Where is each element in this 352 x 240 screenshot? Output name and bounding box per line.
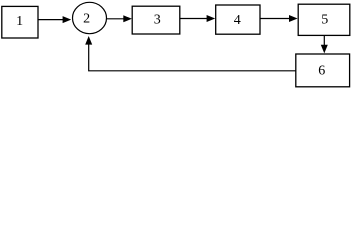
arrowhead into summing junction — [63, 16, 72, 23]
wire block1 to summing junction — [39, 19, 64, 21]
svg-text:1: 1 — [16, 14, 23, 29]
arrowhead into block 6 — [321, 45, 328, 54]
arrowhead into block 3 — [123, 15, 132, 22]
wire block 4 to block 5 — [260, 18, 291, 20]
summing junction circle 2 — [73, 2, 107, 33]
svg-text:6: 6 — [318, 63, 325, 78]
wire summing junction to block 3 — [107, 18, 126, 20]
block 5 — [298, 4, 350, 35]
arrowhead feedback into summing junction — [85, 36, 92, 45]
feedback wire block 6 to summing junction — [89, 42, 296, 71]
wire block 5 down to block 6 — [323, 36, 325, 47]
svg-text:2: 2 — [83, 11, 90, 26]
block 1 — [2, 6, 38, 38]
arrowhead into block 5 — [289, 15, 298, 22]
svg-text:5: 5 — [321, 12, 328, 27]
svg-text:4: 4 — [234, 13, 241, 28]
arrowhead into block 4 — [207, 15, 216, 22]
block 6 — [296, 54, 350, 87]
svg-text:3: 3 — [154, 12, 161, 27]
block 4 — [216, 5, 260, 34]
block 3 — [132, 6, 180, 34]
wire block 3 to block 4 — [180, 18, 209, 20]
